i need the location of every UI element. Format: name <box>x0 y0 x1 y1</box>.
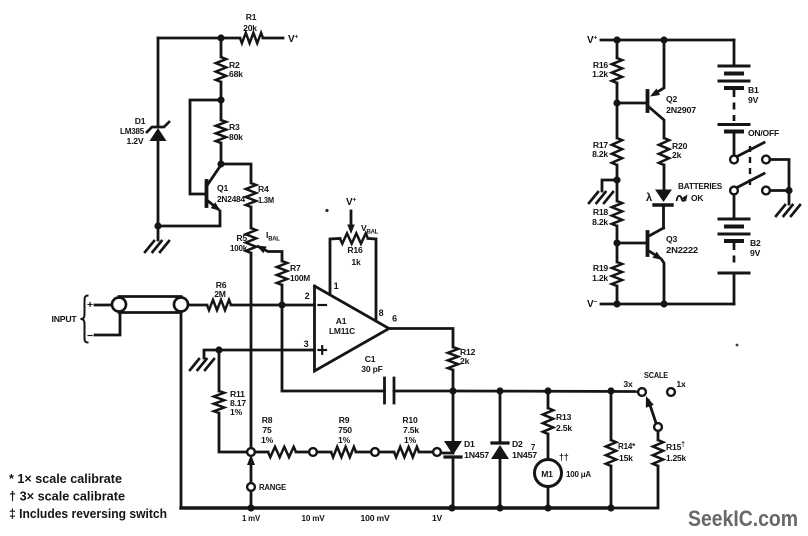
svg-text:R3: R3 <box>229 122 240 132</box>
svg-text:Q1: Q1 <box>217 183 228 193</box>
svg-text:1%: 1% <box>404 435 417 445</box>
svg-text:10 mV: 10 mV <box>302 513 325 523</box>
svg-text:75: 75 <box>262 425 272 435</box>
svg-text:R19: R19 <box>593 263 609 273</box>
svg-text:RANGE: RANGE <box>259 482 286 492</box>
svg-text:M1: M1 <box>541 469 553 479</box>
svg-text:3: 3 <box>304 339 309 349</box>
svg-text:R9: R9 <box>339 415 350 425</box>
svg-text:1k: 1k <box>351 257 361 267</box>
svg-text:1%: 1% <box>230 407 243 417</box>
svg-text:D1: D1 <box>135 116 146 126</box>
svg-text:2k: 2k <box>672 150 682 160</box>
svg-text:R7: R7 <box>290 263 301 273</box>
svg-text:30 pF: 30 pF <box>361 364 382 374</box>
svg-text:R14*: R14* <box>618 441 636 451</box>
svg-text:6: 6 <box>392 314 397 324</box>
svg-text:A1: A1 <box>336 316 347 326</box>
svg-text:BATTERIES: BATTERIES <box>678 181 723 191</box>
svg-text:8.2k: 8.2k <box>592 217 608 227</box>
svg-text:LM11C: LM11C <box>329 326 355 336</box>
svg-text:3x: 3x <box>623 379 633 389</box>
svg-text:Q3: Q3 <box>666 234 677 244</box>
svg-text:80k: 80k <box>229 132 243 142</box>
svg-text:750: 750 <box>338 425 352 435</box>
svg-text:INPUT: INPUT <box>52 314 78 324</box>
svg-text:7.5k: 7.5k <box>403 425 419 435</box>
svg-text:15k: 15k <box>619 453 633 463</box>
svg-text:1: 1 <box>334 281 339 291</box>
svg-text:R16: R16 <box>347 245 363 255</box>
svg-text:100 μA: 100 μA <box>566 469 591 479</box>
svg-text:1.3M: 1.3M <box>258 195 274 205</box>
svg-text:2.5k: 2.5k <box>556 423 572 433</box>
svg-text:R4: R4 <box>258 184 269 194</box>
svg-text:1N457: 1N457 <box>464 450 489 460</box>
svg-text:B2: B2 <box>750 238 761 248</box>
svg-text:1.2V: 1.2V <box>127 136 144 146</box>
svg-text:1%: 1% <box>338 435 351 445</box>
svg-text:1V: 1V <box>432 513 443 523</box>
svg-text:1.2k: 1.2k <box>592 273 608 283</box>
svg-text:D1: D1 <box>464 439 475 449</box>
svg-text:R5: R5 <box>236 233 247 243</box>
svg-text:C1: C1 <box>365 354 376 364</box>
svg-text:1.2k: 1.2k <box>592 69 608 79</box>
svg-text:1 mV: 1 mV <box>242 513 260 523</box>
svg-text:2k: 2k <box>460 356 470 366</box>
svg-text:8.2k: 8.2k <box>592 149 608 159</box>
svg-text:B1: B1 <box>748 85 759 95</box>
svg-text:2N2907: 2N2907 <box>666 105 696 115</box>
svg-text:1%: 1% <box>261 435 274 445</box>
svg-text:‡ Includes reversing switch: ‡ Includes reversing switch <box>9 506 167 521</box>
svg-text:2M: 2M <box>214 289 226 299</box>
svg-text:2: 2 <box>305 291 310 301</box>
svg-text:Q2: Q2 <box>666 94 677 104</box>
svg-text:8: 8 <box>379 308 384 318</box>
svg-text:R10: R10 <box>402 415 418 425</box>
svg-text:λ: λ <box>646 192 652 204</box>
svg-text:9V: 9V <box>750 248 761 258</box>
svg-text:100 mV: 100 mV <box>361 513 390 523</box>
svg-text:1.25k: 1.25k <box>666 453 686 463</box>
svg-text:R8: R8 <box>262 415 273 425</box>
svg-text:68k: 68k <box>229 69 243 79</box>
svg-text:SCALE: SCALE <box>644 370 669 380</box>
svg-text:††: †† <box>559 452 569 462</box>
svg-text:100M: 100M <box>290 273 310 283</box>
svg-text:OK: OK <box>691 193 703 203</box>
svg-text:D2: D2 <box>512 439 523 449</box>
svg-text:† 3× scale calibrate: † 3× scale calibrate <box>9 489 125 504</box>
svg-text:R13: R13 <box>556 412 572 422</box>
svg-text:R1: R1 <box>246 12 257 22</box>
svg-text:9V: 9V <box>748 95 759 105</box>
svg-text:−: − <box>87 330 93 342</box>
svg-text:LM385: LM385 <box>120 126 144 136</box>
svg-text:ON/OFF: ON/OFF <box>748 128 779 138</box>
svg-text:20k: 20k <box>243 23 257 33</box>
svg-text:2N2222: 2N2222 <box>666 245 698 255</box>
svg-text:2N2484: 2N2484 <box>217 194 245 204</box>
svg-text:R18: R18 <box>593 207 609 217</box>
svg-text:SeekIC.com: SeekIC.com <box>688 506 798 531</box>
svg-text:1x: 1x <box>676 379 686 389</box>
svg-text:* 1× scale calibrate: * 1× scale calibrate <box>9 471 122 486</box>
svg-text:100k: 100k <box>230 243 247 253</box>
svg-text:+: + <box>87 299 93 311</box>
